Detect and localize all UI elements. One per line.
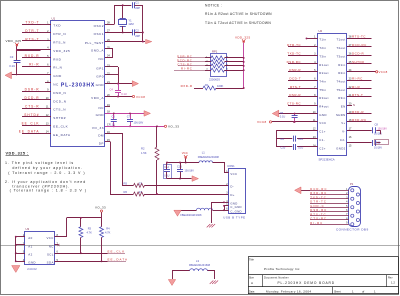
power VCC8 (U2 pin V+) — [347, 70, 388, 74]
U2 left net labels — [287, 43, 318, 105]
inductor L3 — [173, 259, 215, 279]
svg-text:RTS-T: RTS-T — [352, 93, 363, 97]
capacitor C6 — [110, 112, 117, 127]
svg-text:Size: Size — [249, 277, 254, 280]
U1 left pin stubs and numbers — [12, 22, 51, 134]
svg-text:SHTD#: SHTD# — [352, 60, 364, 64]
power arrow (DB9 pin1 wire) — [295, 187, 311, 194]
power VDD_325 (RP1) — [235, 35, 250, 87]
svg-text:220/0603: 220/0603 — [209, 77, 220, 81]
svg-text:0.1U: 0.1U — [298, 138, 303, 141]
svg-text:GP0: GP0 — [96, 75, 104, 79]
ground arrow (L3 left) — [168, 280, 175, 286]
op-amp U1 outline PL-2303HX — [51, 17, 105, 147]
svg-text:PL-2303HX DEMO BOARD: PL-2303HX DEMO BOARD — [278, 281, 336, 285]
wire OSC2 riser — [115, 4, 132, 24]
svg-text:( Tolerant range : 2.0 - 3.3 V: ( Tolerant range : 2.0 - 3.3 V ) — [8, 171, 85, 175]
svg-text:0.1U: 0.1U — [9, 64, 15, 68]
U3 NC mark — [55, 244, 60, 246]
wire OSC1 rail — [105, 5, 144, 41]
svg-text:A1: A1 — [28, 244, 32, 248]
svg-text:of: of — [362, 289, 365, 293]
capacitor C5 coupling — [292, 113, 298, 123]
node VO_33 — [105, 125, 179, 129]
svg-text:R1in & R2out ACTIVE in SHUTDOW: R1in & R2out ACTIVE in SHUTDOWN — [205, 12, 272, 16]
svg-text:VO_33: VO_33 — [92, 126, 104, 130]
svg-text:U1: U1 — [52, 17, 56, 21]
svg-text:RTS-TC: RTS-TC — [352, 35, 366, 39]
svg-text:VO_33: VO_33 — [168, 125, 179, 129]
svg-text:U2: U2 — [319, 29, 323, 33]
svg-text:GND: GND — [319, 113, 326, 117]
capacitor C9 — [276, 136, 317, 142]
svg-text:CTS-RC: CTS-RC — [287, 102, 301, 106]
capacitor C12 — [164, 163, 172, 179]
svg-text:C2-: C2- — [340, 138, 346, 142]
wire GND rail (pin 18) — [105, 113, 144, 115]
power arrow (U1 pin 21 GND) — [132, 81, 138, 87]
U2 right net labels — [347, 35, 372, 123]
svg-text:DCD-RC: DCD-RC — [352, 43, 367, 47]
svg-text:RI-RC: RI-RC — [352, 76, 363, 80]
svg-text:24C02: 24C02 — [27, 267, 37, 271]
svg-text:SP213EHCA: SP213EHCA — [319, 158, 335, 162]
svg-text:1U/16V: 1U/16V — [374, 146, 382, 149]
svg-text:RXD-RC: RXD-RC — [310, 191, 327, 195]
note NOTICE text — [205, 3, 272, 25]
svg-text:0.1U: 0.1U — [280, 114, 286, 118]
svg-text:CONNECTOR DB9: CONNECTOR DB9 — [336, 227, 369, 231]
resistor pack RP1 — [205, 49, 245, 81]
svg-text:R4: R4 — [106, 227, 110, 231]
svg-text:RI-RC: RI-RC — [310, 221, 323, 225]
svg-text:DSR-RC: DSR-RC — [310, 208, 327, 212]
svg-text:Sheet: Sheet — [334, 290, 341, 293]
svg-text:VCC: VCC — [46, 236, 53, 240]
svg-text:CTS-R: CTS-R — [25, 105, 40, 109]
svg-text:Rev: Rev — [388, 277, 393, 280]
svg-text:DTR-TC: DTR-TC — [310, 200, 327, 204]
inductor L2 — [178, 206, 225, 217]
svg-text:RTS-TC: RTS-TC — [310, 212, 326, 216]
svg-text:20P: 20P — [135, 34, 140, 38]
svg-text:VDD_325: VDD_325 — [6, 39, 22, 43]
svg-text:NC: NC — [53, 83, 59, 87]
svg-text:SHTD#: SHTD# — [53, 116, 66, 120]
U1 left net labels — [19, 21, 41, 134]
svg-text:PL-2303HX: PL-2303HX — [61, 82, 95, 88]
svg-text:T4out: T4out — [336, 79, 345, 83]
power VCC8 (U2 pin11) — [257, 120, 318, 124]
svg-text:NC: NC — [99, 57, 105, 61]
svg-text:27: 27 — [139, 190, 142, 194]
svg-text:V-: V- — [342, 130, 345, 134]
svg-text:4.7K: 4.7K — [87, 230, 93, 234]
capacitor C4 (VDD_A decoupling) — [110, 84, 127, 98]
svg-text:VCC8: VCC8 — [379, 70, 388, 74]
svg-text:C13: C13 — [177, 165, 182, 168]
svg-text:T2in: T2in — [319, 46, 326, 50]
svg-text:Y1: Y1 — [128, 18, 132, 22]
svg-text:RXD-R: RXD-R — [352, 110, 364, 114]
svg-text:A: A — [251, 281, 253, 285]
svg-text:SHDN: SHDN — [336, 113, 346, 117]
svg-text:EE_DATA: EE_DATA — [108, 258, 129, 262]
svg-text:Monday, February 16, 2004: Monday, February 16, 2004 — [266, 289, 311, 293]
wire EE_CLK — [55, 250, 126, 254]
svg-text:0.1U: 0.1U — [298, 146, 303, 149]
svg-text:CTS-RC: CTS-RC — [310, 217, 327, 221]
svg-text:RI-R: RI-R — [352, 85, 360, 89]
ground arrow (U1 pin 7) — [5, 72, 12, 79]
svg-text:U3: U3 — [26, 227, 30, 231]
svg-text:T1in & T2out ACTIVE in SHUTDOW: T1in & T2out ACTIVE in SHUTDOWN — [205, 21, 271, 25]
svg-text:SCL: SCL — [47, 253, 54, 257]
RP1 net labels — [174, 54, 205, 70]
svg-text:Date:: Date: — [249, 290, 255, 293]
svg-text:C10: C10 — [280, 145, 285, 149]
wire U2 charge pump bus — [276, 130, 317, 147]
U3 pin names — [23, 234, 59, 264]
svg-text:VCC8: VCC8 — [136, 95, 145, 99]
svg-text:VCC: VCC — [319, 121, 326, 125]
svg-text:VCC: VCC — [230, 172, 237, 176]
svg-text:R2out: R2out — [319, 71, 328, 75]
resistor R1 — [181, 83, 245, 90]
svg-text:T3out: T3out — [336, 54, 345, 58]
svg-text:R4out: R4out — [319, 105, 328, 109]
svg-text:RI-R: RI-R — [29, 63, 39, 67]
svg-text:RTS_N: RTS_N — [53, 41, 66, 45]
svg-text:20P: 20P — [135, 6, 140, 10]
svg-text:CTS_N: CTS_N — [53, 108, 66, 112]
svg-text:0.1U: 0.1U — [164, 175, 169, 178]
svg-text:RI_N: RI_N — [53, 66, 62, 70]
svg-text:TXD: TXD — [53, 24, 61, 28]
ground (L3 right) — [210, 281, 218, 284]
svg-text:T5in: T5in — [319, 88, 326, 92]
svg-text:GP1: GP1 — [96, 67, 104, 71]
capacitor C5 (U2 pin10) — [272, 110, 317, 118]
ground (CON1 GND) — [207, 203, 224, 228]
resistor R6 — [124, 190, 229, 196]
svg-text:defined by your application.: defined by your application. — [12, 166, 82, 170]
svg-text:DCD_N: DCD_N — [53, 99, 66, 103]
svg-text:DTR_N: DTR_N — [53, 32, 66, 36]
svg-text:1U/16V: 1U/16V — [374, 132, 382, 135]
svg-text:OSC1: OSC1 — [94, 32, 104, 36]
svg-text:1.2: 1.2 — [391, 281, 395, 285]
svg-text:A0: A0 — [28, 236, 32, 240]
svg-text:VCC8: VCC8 — [257, 120, 267, 124]
svg-text:1. The pin4 voltage level is: 1. The pin4 voltage level is — [5, 161, 74, 165]
svg-text:R3in: R3in — [338, 96, 345, 100]
resistor R3 — [79, 218, 92, 254]
svg-text:T2out: T2out — [336, 46, 345, 50]
svg-text:D+: D+ — [230, 193, 234, 197]
svg-text:TXD-T: TXD-T — [25, 21, 39, 25]
resistor R2 — [141, 126, 159, 195]
svg-text:10U/16V: 10U/16V — [185, 170, 195, 173]
svg-text:N: N — [353, 103, 355, 107]
power VCC8 (VDD_A) — [132, 95, 145, 99]
svg-text:VO_33: VO_33 — [95, 206, 106, 210]
svg-text:TXD-TC: TXD-TC — [310, 195, 326, 199]
svg-text:R1out: R1out — [319, 63, 328, 67]
svg-text:( Tolerant range : 1.8 - 3.3 V: ( Tolerant range : 1.8 - 3.3 V ) — [10, 189, 87, 193]
svg-text:L3: L3 — [196, 259, 199, 263]
svg-text:C2+: C2+ — [319, 146, 325, 150]
title block frame — [248, 257, 399, 295]
capacitor C7 — [127, 112, 144, 127]
svg-text:RP1: RP1 — [212, 49, 218, 53]
svg-text:RXD-RC: RXD-RC — [352, 118, 367, 122]
op-amp U3 outline 24C02 — [25, 227, 55, 271]
svg-text:C9: C9 — [280, 137, 284, 141]
wire DM route — [105, 134, 134, 186]
svg-text:EE_CLK: EE_CLK — [22, 121, 40, 125]
svg-text:4.7K: 4.7K — [105, 230, 111, 234]
power VCC (USB) — [182, 151, 188, 163]
capacitor C2 — [131, 29, 143, 38]
wire DP route — [111, 142, 134, 195]
svg-text:VDD_A: VDD_A — [91, 96, 104, 100]
svg-text:C1+: C1+ — [319, 130, 325, 134]
svg-text:FBEAD2012F1608: FBEAD2012F1608 — [189, 264, 211, 267]
svg-text:L1: L1 — [202, 151, 205, 155]
svg-text:V+: V+ — [341, 121, 345, 125]
svg-text:DCD-T: DCD-T — [289, 76, 301, 80]
svg-text:2. If your application don't n: 2. If your application don't need — [5, 180, 86, 184]
op-amp U2 outline SP213EHCA — [318, 29, 347, 162]
svg-text:RXD: RXD — [53, 57, 61, 61]
svg-text:DCD-R: DCD-R — [352, 51, 364, 55]
wire EE_DATA — [55, 258, 129, 262]
svg-text:GND2: GND2 — [336, 146, 345, 150]
svg-text:EE_DATA: EE_DATA — [53, 133, 71, 137]
svg-text:EE_CLK: EE_CLK — [53, 125, 68, 129]
svg-text:OSC2: OSC2 — [94, 24, 104, 28]
svg-text:R5: R5 — [124, 181, 128, 185]
power arrow PLL_TEST — [142, 39, 152, 43]
crystal Y1 — [119, 5, 135, 33]
svg-text:P1: P1 — [350, 182, 354, 186]
svg-text:NC: NC — [49, 244, 54, 248]
svg-text:C1: C1 — [135, 1, 139, 5]
svg-text:VDD_325 :: VDD_325 : — [6, 152, 29, 156]
svg-text:EE_CLK: EE_CLK — [108, 250, 126, 254]
svg-text:GND_A: GND_A — [91, 49, 105, 53]
svg-text:DP: DP — [99, 141, 104, 145]
power arrow GND rail — [144, 111, 151, 117]
U2 pin numbers — [313, 36, 352, 148]
svg-text:GND-C: GND-C — [310, 204, 324, 208]
U1 right pin names — [85, 24, 105, 146]
connector CON1 USB — [223, 164, 245, 219]
svg-text:DM: DM — [98, 133, 104, 137]
svg-text:A2: A2 — [28, 253, 32, 257]
svg-text:FBEAD2012F1608: FBEAD2012F1608 — [180, 214, 202, 217]
wire C12-C13 ground rail — [167, 178, 192, 180]
svg-text:PLL_TEST: PLL_TEST — [85, 41, 104, 45]
svg-text:RXD-R: RXD-R — [181, 84, 193, 88]
svg-text:VCC: VCC — [182, 151, 188, 155]
svg-text:NC: NC — [99, 106, 105, 110]
svg-text:Title: Title — [249, 258, 254, 262]
svg-text:R1in: R1in — [338, 63, 345, 67]
svg-text:Profile Technology Inc: Profile Technology Inc — [264, 267, 300, 271]
svg-text:0.1U: 0.1U — [121, 92, 127, 96]
svg-text:10U/16V: 10U/16V — [378, 127, 388, 130]
svg-text:10U/16V: 10U/16V — [134, 122, 144, 125]
wire VCC rail — [166, 162, 199, 164]
U3 left pin bus — [15, 236, 25, 262]
U2 pin1 stub — [306, 37, 318, 39]
svg-text:GND: GND — [96, 113, 105, 117]
CON1 pin stubs — [223, 173, 229, 212]
U2 no-connect pin — [347, 103, 355, 107]
svg-text:NOTICE :: NOTICE : — [205, 3, 222, 7]
svg-text:R2in: R2in — [338, 71, 345, 75]
capacitor C10 — [276, 144, 317, 150]
wire U3 VCC — [55, 218, 67, 237]
svg-text:GND: GND — [28, 261, 36, 265]
DB9 net labels — [310, 187, 349, 225]
capacitor C13 — [177, 163, 194, 180]
svg-text:RI-RC: RI-RC — [181, 67, 193, 71]
capacitor C8 — [347, 123, 387, 136]
ground arrow (U3) — [12, 266, 20, 273]
C3 plates — [13, 61, 20, 63]
svg-text:100K: 100K — [217, 84, 223, 88]
svg-text:SDA: SDA — [47, 261, 54, 265]
U2 pin names — [319, 38, 345, 151]
svg-text:EN: EN — [341, 105, 346, 109]
ground arrow (L2) — [174, 210, 181, 216]
inductor L1 — [198, 151, 229, 173]
svg-text:R3out: R3out — [319, 96, 328, 100]
svg-text:C3: C3 — [10, 55, 14, 59]
svg-text:VDD_325: VDD_325 — [235, 35, 250, 39]
wire GP1-GP0 tie — [117, 67, 119, 85]
connector P1 DB9 — [349, 182, 361, 227]
svg-text:27: 27 — [139, 181, 142, 185]
wire GND_A jog — [105, 49, 113, 58]
svg-text:GND: GND — [96, 83, 105, 87]
svg-text:D-: D- — [230, 185, 234, 189]
svg-text:C2: C2 — [135, 29, 139, 33]
svg-text:C_GND: C_GND — [230, 205, 242, 209]
note VDD_325 tolerance text — [5, 152, 87, 193]
power VDD_325 (pin 4) — [6, 39, 41, 75]
svg-text:R6: R6 — [124, 190, 128, 194]
svg-text:CON1: CON1 — [227, 164, 235, 168]
svg-text:USB B TYPE: USB B TYPE — [223, 215, 245, 219]
power arrow (C13 gnd) — [192, 176, 199, 182]
svg-text:R2: R2 — [141, 146, 145, 150]
svg-text:T1in: T1in — [319, 38, 326, 42]
svg-text:DSR_N: DSR_N — [53, 91, 66, 95]
resistor R4 — [100, 218, 111, 262]
svg-text:T3in: T3in — [319, 54, 326, 58]
svg-text:12M: 12M — [128, 22, 134, 26]
svg-text:VDD_325: VDD_325 — [53, 49, 70, 53]
resistor R5 — [124, 181, 229, 187]
svg-text:TXD-TC: TXD-TC — [287, 51, 301, 55]
capacitor C3 — [9, 55, 20, 68]
svg-text:GND: GND — [53, 74, 62, 78]
U1 left pin names — [53, 24, 71, 137]
svg-text:1.5K: 1.5K — [141, 151, 147, 155]
svg-text:C4: C4 — [110, 87, 114, 91]
svg-text:C1-: C1- — [319, 138, 325, 142]
svg-text:T4in: T4in — [319, 79, 326, 83]
svg-text:Document Number: Document Number — [264, 276, 289, 280]
DB9 caption — [336, 227, 369, 231]
svg-text:C_GND: C_GND — [230, 209, 242, 213]
svg-text:T1out: T1out — [336, 38, 345, 42]
svg-text:C8: C8 — [375, 123, 379, 127]
node VO_33 rail — [67, 206, 106, 219]
svg-text:DCD-RC: DCD-RC — [310, 187, 327, 191]
capacitor C1 — [133, 1, 143, 10]
svg-text:R3: R3 — [88, 227, 92, 231]
title block text — [249, 258, 395, 294]
U1 right pin stubs and numbers — [105, 22, 164, 143]
svg-text:T5out: T5out — [336, 88, 345, 92]
svg-text:FBEAD2012F1608: FBEAD2012F1608 — [198, 156, 220, 159]
capacitor C11 — [347, 140, 389, 150]
